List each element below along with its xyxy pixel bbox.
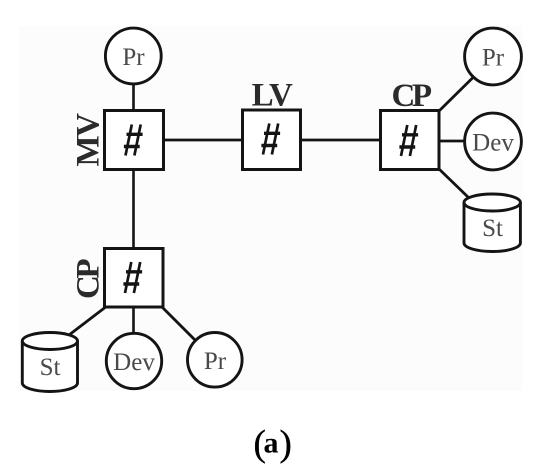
svg-text:CP: CP [71, 259, 107, 299]
wire: LV to CP right [300, 139, 381, 142]
node: circle Dev bottom [106, 333, 161, 388]
node: square LV [243, 110, 301, 170]
wire: CP right to Dev [439, 140, 465, 143]
node: circle Pr bottom [188, 333, 243, 388]
node: circle Dev right [465, 113, 522, 170]
hash in MV [124, 125, 143, 156]
hash in CP bottom [123, 262, 142, 293]
svg-text:St: St [40, 354, 61, 381]
wire: MV to CP bottom [132, 169, 135, 249]
wire: CP bottom to St left [69, 306, 107, 335]
svg-text:St: St [482, 215, 503, 242]
svg-text:Pr: Pr [122, 44, 145, 71]
node: cylinder St right [464, 194, 520, 252]
svg-text:Pr: Pr [204, 348, 227, 375]
wire: CP bottom to Pr bottom [161, 306, 196, 341]
svg-text:a: a [264, 427, 279, 460]
node: circle Pr top-right [465, 28, 522, 85]
svg-text:): ) [280, 424, 292, 465]
wire: Pr top-left to MV [132, 84, 135, 112]
svg-text:Pr: Pr [482, 45, 505, 72]
node: square CP bottom [105, 249, 164, 308]
svg-text:Dev: Dev [113, 349, 155, 376]
node: square MV [105, 111, 164, 170]
wire: MV to LV [163, 139, 243, 142]
wire: CP bottom to Dev bottom [132, 306, 135, 333]
node: square CP right [381, 111, 440, 170]
hash in CP right [399, 125, 418, 156]
svg-text:Dev: Dev [472, 130, 514, 157]
node: cylinder St left [22, 333, 77, 392]
svg-text:LV: LV [252, 78, 293, 114]
wire: CP right to St right [438, 168, 469, 198]
node: circle Pr top-left [105, 28, 161, 84]
svg-text:MV: MV [71, 113, 107, 167]
wire: CP right to Pr top-right [438, 78, 473, 113]
hash in LV [261, 124, 280, 155]
caption (a) [254, 424, 292, 465]
svg-text:CP: CP [392, 78, 432, 114]
